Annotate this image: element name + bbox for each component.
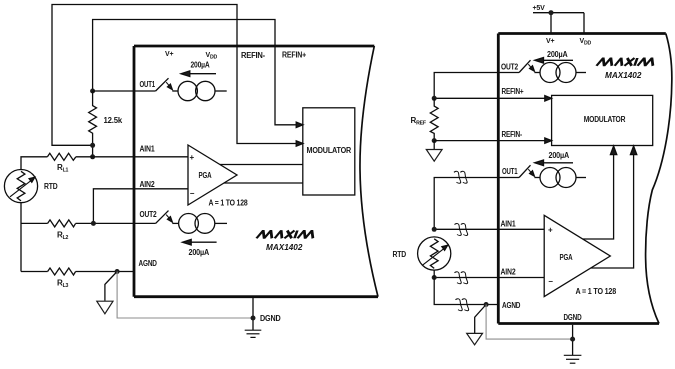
RTD sensor (left) (4, 170, 37, 203)
resistor 12.5k (89, 91, 97, 157)
node dot AIN1 / OUT1 / RTD top (432, 227, 437, 232)
wire AGND to DGND link (gray, right) (486, 305, 570, 340)
wire REFIN- pin to modulator U2 (434, 138, 551, 143)
svg-text:DGND: DGND (260, 314, 281, 323)
wire DGND pin (right) (572, 325, 574, 355)
svg-text:RL1: RL1 (57, 163, 69, 174)
svg-text:OUT1: OUT1 (140, 80, 156, 89)
node dot AGND junction (right) (484, 302, 489, 307)
svg-text:VDD: VDD (206, 52, 218, 61)
wire RL3 left lead (21, 271, 48, 273)
wire OUT1 pin and left branch down to AIN1 node (434, 178, 519, 230)
svg-text:DGND: DGND (564, 313, 582, 322)
svg-text:PGA: PGA (560, 253, 573, 262)
node dot DGND (right) (570, 337, 575, 342)
resistor RL3 (48, 268, 76, 275)
svg-text:+: + (190, 153, 195, 162)
wire AGND to DGND link (gray, left) (117, 272, 251, 319)
MAXIM logo U1 (257, 231, 316, 239)
wire RL2 left lead (21, 222, 48, 224)
wire PGA output+ up into modulator U2 (583, 146, 617, 239)
svg-text:AGND: AGND (502, 301, 521, 310)
resistor RREF (430, 98, 438, 140)
arrow 200uA direction (OUT1 U2) (535, 160, 573, 166)
node dot OUT1 / 12.5k / REFIN+ junction (90, 89, 95, 94)
wire switch to current source (172, 90, 178, 92)
wire REFIN+ pin to modulator U2 (434, 96, 551, 101)
wire +5V rail (533, 13, 584, 34)
wire break squiggle OUT1 (454, 171, 468, 183)
node dot AIN2/OUT2/RL2 junction (91, 221, 96, 226)
wire RTD bottom to AGND pin (434, 270, 498, 305)
op-amp PGA U2 (544, 215, 610, 296)
svg-text:REFIN-: REFIN- (241, 51, 266, 60)
svg-text:−: − (548, 277, 553, 286)
wire RTD top to RL1 (21, 157, 47, 170)
node dot REFIN- / RREF bottom (432, 138, 437, 143)
wire AIN2 branch (93, 189, 188, 224)
MAXIM logo U2 (597, 58, 656, 66)
svg-text:OUT2: OUT2 (501, 63, 519, 72)
svg-text:OUT2: OUT2 (140, 210, 158, 219)
wire RL1 to AIN1 pin / PGA (76, 156, 188, 158)
svg-text:RTD: RTD (44, 182, 58, 191)
svg-text:REFIN+: REFIN+ (502, 87, 524, 96)
svg-text:MAX1402: MAX1402 (605, 71, 642, 80)
svg-text:AIN1: AIN1 (501, 220, 517, 229)
earth ground DGND (right) (564, 355, 582, 363)
analog ground symbol (right) (467, 305, 486, 345)
wire RTD bottom rail (left) (20, 203, 22, 272)
svg-text:REFIN-: REFIN- (502, 130, 523, 139)
svg-text:200µA: 200µA (189, 248, 210, 257)
modulator U2 box (552, 95, 653, 145)
svg-text:12.5k: 12.5k (104, 116, 123, 125)
earth ground DGND (left) (245, 330, 262, 337)
node dot 12.5k bottom / REFIN- junction (90, 143, 95, 148)
wire AGND pin (76, 271, 134, 273)
node dot REFIN+ / RREF top (432, 96, 437, 101)
arrow 200uA direction (OUT2 U2) (535, 58, 573, 64)
svg-text:AIN2: AIN2 (140, 180, 156, 189)
analog ground below RREF (426, 141, 442, 162)
analog ground symbol (left) (97, 272, 117, 314)
arrow 200uA direction (OUT2 U1) (182, 239, 216, 245)
svg-text:PGA: PGA (199, 171, 212, 180)
IC U1 MAX1402 chip outline (left, torn right edge) (134, 46, 378, 297)
wire AIN2 pin to PGA (434, 277, 544, 279)
svg-text:A = 1 TO 128: A = 1 TO 128 (576, 287, 617, 296)
svg-text:+5V: +5V (533, 5, 546, 12)
svg-text:200µA: 200µA (191, 61, 210, 70)
wire DGND pin (left) (252, 298, 254, 330)
svg-text:−: − (190, 189, 195, 198)
resistor RL2 (48, 220, 76, 227)
wire switch to current source (OUT2 U2) (534, 72, 540, 74)
svg-text:V+: V+ (546, 38, 554, 45)
op-amp PGA U1 (188, 145, 237, 205)
wire switch to current source (OUT2 U1) (172, 222, 178, 224)
switch OUT1 U2 (519, 165, 534, 177)
current source OUT2 U2 (200uA) (540, 63, 586, 83)
svg-text:V+: V+ (165, 51, 173, 58)
wire break squiggle AIN2 (454, 272, 468, 284)
current source OUT1 U1 (200uA) (178, 81, 227, 100)
wire REFIN+ net: loop to OUT1 node and into modulator (93, 20, 303, 128)
RTD sensor (right) (418, 237, 451, 270)
wire PGA output+ to modulator U1 (220, 164, 303, 166)
svg-text:MODULATOR: MODULATOR (584, 115, 626, 124)
svg-text:AIN2: AIN2 (501, 268, 517, 277)
node dot AIN2 / RTD bottom (432, 275, 437, 280)
svg-text:REFIN+: REFIN+ (282, 51, 306, 60)
wire RL2 to OUT2 pin (76, 222, 156, 224)
svg-text:RL2: RL2 (57, 231, 69, 242)
switch OUT1 U1 (156, 78, 173, 91)
node dot DGND (left) (251, 316, 256, 321)
current source OUT2 U1 (200uA) (179, 214, 227, 234)
switch OUT2 U2 (519, 60, 534, 72)
wire switch to current source (OUT1 U2) (534, 177, 540, 179)
wire PGA output- up into modulator U2 (591, 146, 637, 268)
wire AIN1 pin to PGA (434, 228, 544, 230)
wire PGA output- to modulator U1 (224, 182, 303, 184)
svg-text:MODULATOR: MODULATOR (307, 146, 352, 155)
svg-text:200µA: 200µA (547, 50, 568, 59)
svg-text:+: + (548, 226, 553, 235)
wire break squiggle AGND (455, 299, 469, 311)
svg-text:AGND: AGND (139, 259, 158, 268)
current source OUT1 U2 (200uA) (540, 168, 586, 188)
node dot AGND junction (left) (115, 269, 120, 274)
svg-text:RTD: RTD (393, 250, 407, 259)
svg-text:200µA: 200µA (549, 151, 570, 160)
IC U2 MAX1402 chip outline (right, torn right edge) (498, 34, 672, 324)
node dot +5V / V+ junction (549, 10, 554, 15)
wire OUT1 pin (93, 90, 156, 92)
svg-text:AIN1: AIN1 (140, 145, 156, 154)
node dot AIN1 line junction (90, 154, 95, 159)
svg-text:A = 1 TO 128: A = 1 TO 128 (209, 199, 249, 208)
modulator U1 box (303, 108, 355, 195)
svg-text:MAX1402: MAX1402 (266, 243, 303, 252)
wire break squiggle AIN1 (454, 224, 468, 236)
switch OUT2 U1 (156, 211, 173, 224)
resistor RL1 (47, 153, 76, 160)
svg-text:OUT1: OUT1 (502, 167, 518, 176)
arrow 200uA direction (OUT1 U1) (181, 71, 216, 77)
svg-text:RL3: RL3 (57, 279, 69, 290)
svg-text:RREF: RREF (411, 116, 426, 127)
wire REFIN- net: top loop to AIN1 node and into modulator (52, 5, 303, 147)
wire OUT2 pin and left branch to REFIN+ node (434, 73, 519, 99)
svg-text:VDD: VDD (580, 38, 592, 47)
